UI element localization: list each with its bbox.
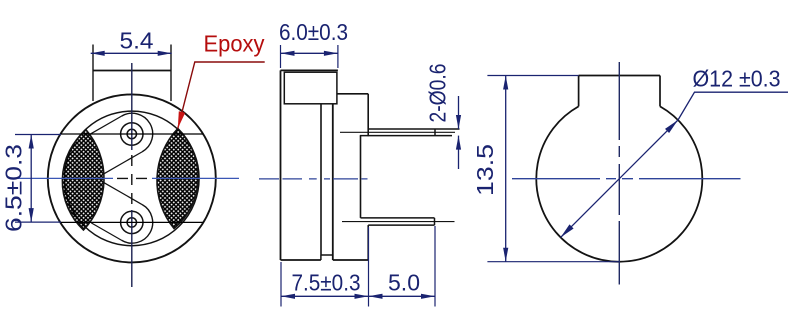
outer circle (housing OD) [48, 94, 216, 262]
top pin slot upper side line [88, 116, 121, 135]
dimension 7.5/5.0 shared extension line [368, 227, 370, 307]
dimension D12 leader kink and underline [678, 92, 788, 120]
base right face above top pin [367, 94, 369, 136]
dimension 6.5 top arrow [29, 135, 34, 149]
dimension 2-D0.6 upper segment [458, 96, 460, 129]
dimension 6.5 line [30, 135, 32, 223]
mounting tab left side [578, 76, 580, 107]
bottom pin slot upper side line [104, 183, 142, 205]
dimension 6.0 left arrow [281, 51, 295, 56]
svg-text:2-Ø0.6: 2-Ø0.6 [425, 64, 451, 123]
dimension 5.0 left arrow [369, 294, 383, 299]
svg-text:Epoxy: Epoxy [204, 30, 265, 56]
case left edge [280, 70, 282, 260]
top pin lower edge [360, 135, 452, 137]
dimension D12 diagonal line [561, 120, 678, 237]
case inner seam line left [320, 104, 322, 255]
mounting tab edge (bottom view) right side [170, 45, 172, 102]
dimension 2-D0.6 up arrow [456, 136, 461, 150]
dimension 13.5 bottom arrow [503, 248, 508, 262]
base right face below bottom pin [367, 225, 369, 260]
case top inner lip rectangle [284, 72, 337, 104]
left view vertical centerline center dashes [131, 155, 133, 204]
mounting tab top edge (bottom view) [93, 70, 171, 72]
svg-text:6.0±0.3: 6.0±0.3 [279, 19, 348, 45]
case bottom edge right part [333, 259, 368, 261]
dimension 7.5 extension line left [280, 262, 282, 307]
dimension 13.5 extension line top [487, 75, 578, 77]
left view vertical centerline lower segment [131, 210, 133, 287]
left view horizontal centerline left segment [15, 177, 113, 179]
bottom pin slot lower side line [91, 223, 121, 240]
bottom pin end cap [434, 218, 436, 225]
svg-text:13.5: 13.5 [472, 144, 498, 196]
dimension 13.5 extension line bottom [487, 261, 619, 263]
svg-text:Ø12 ±0.3: Ø12 ±0.3 [693, 66, 781, 92]
dimension 6.0 extension line right [337, 45, 339, 68]
dimension 5.4 left arrow [91, 51, 105, 56]
svg-text:5.0: 5.0 [388, 270, 420, 296]
top pin (bottom view) outer ring [121, 123, 143, 145]
mounting tab edge (bottom view) left side [92, 45, 94, 102]
svg-text:6.5±0.3: 6.5±0.3 [1, 144, 27, 232]
Epoxy leader arrowhead [178, 111, 185, 128]
svg-text:7.5±0.3: 7.5±0.3 [292, 270, 361, 296]
bottom pin axis line [342, 221, 455, 223]
dimension 6.0 right arrow [324, 51, 338, 56]
top pin upper edge [368, 128, 459, 130]
top pin horizontal crosshair [60, 133, 204, 135]
case right edge [332, 104, 334, 260]
housing circle [536, 106, 702, 261]
top pin slot capsule arc [122, 113, 153, 152]
dimension D12 lower-left arrow [561, 224, 574, 237]
dimension 13.5 top arrow [503, 76, 508, 90]
dimension 13.5 line [505, 76, 507, 262]
dimension 6.0 line [281, 52, 338, 54]
dimension 5.0 right arrow [421, 294, 435, 299]
bottom notch left side [320, 255, 322, 260]
bottom pin upper edge [361, 217, 435, 219]
top pin slot lower side line [104, 152, 142, 174]
base step top edge [337, 93, 368, 95]
bottom pin slot capsule arc [122, 205, 153, 244]
right view vertical centerline [618, 62, 620, 285]
dimension 2-D0.6 down arrow [456, 115, 461, 129]
middle view horizontal centerline [259, 178, 368, 180]
mounting tab right side [659, 76, 661, 107]
left view horizontal centerline right segment [152, 177, 239, 179]
top pin axis line [340, 131, 455, 133]
inner circle (housing wall ID) [65, 111, 200, 246]
dimension 7.5 line [281, 295, 369, 297]
dimension D12 upper-right arrow [665, 120, 678, 133]
dimension 5.0 extension line right [434, 226, 436, 307]
dimension 7.5 right arrow [355, 294, 369, 299]
bottom pin horizontal crosshair [60, 221, 204, 223]
dimension 7.5 left arrow [281, 294, 295, 299]
bottom pin lower edge [368, 224, 434, 226]
svg-text:5.4: 5.4 [120, 28, 154, 54]
left view vertical centerline upper segment [131, 63, 133, 150]
right epoxy lens (crosshatched) [157, 129, 198, 229]
bottom pin (bottom view) outer ring [121, 211, 143, 233]
bottom notch floor [321, 254, 333, 256]
case top edge [281, 69, 338, 71]
Epoxy leader line [178, 62, 265, 129]
dimension 6.0 extension line left [280, 45, 282, 68]
dimension 5.4 right arrow [158, 51, 172, 56]
mounting tab top edge [579, 75, 660, 77]
bottom pin (bottom view) inner ring [127, 218, 136, 227]
left epoxy lens (crosshatched) [62, 130, 104, 230]
top pin (bottom view) inner ring [127, 129, 136, 138]
epoxy face between pins [360, 136, 362, 218]
dimension 6.5 extension line top [15, 134, 61, 136]
dimension 2-D0.6 lower segment [458, 136, 460, 169]
top pin end cap [434, 129, 436, 136]
case bottom edge left part [281, 259, 321, 261]
dimension 6.5 extension line bottom [15, 221, 61, 223]
dimension 5.4 line [91, 52, 172, 54]
right view horizontal centerline [512, 178, 741, 180]
left view horizontal centerline center dashes [117, 177, 147, 179]
dimension 6.5 bottom arrow [29, 208, 34, 222]
dimension 5.0 line [369, 295, 436, 297]
